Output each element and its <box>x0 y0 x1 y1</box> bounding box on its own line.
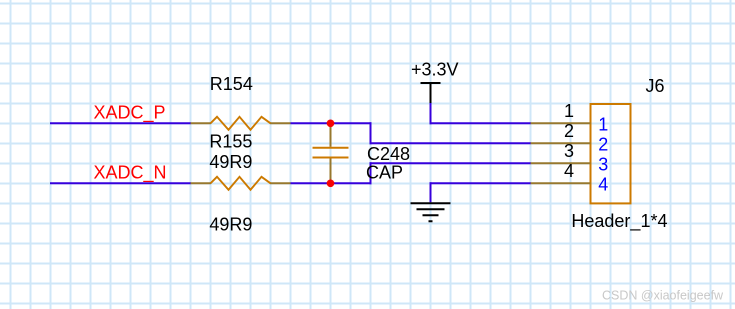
wire to header pin 1 <box>430 122 532 124</box>
svg-text:4: 4 <box>564 161 574 181</box>
wire XADC_P left segment <box>50 122 191 124</box>
wire down to ground <box>430 182 432 202</box>
junction at XADC_P / C248 <box>327 119 335 127</box>
wire XADC_N right segment (resistor R155 to corner) <box>291 182 372 184</box>
wire jog up to pin 3 row <box>370 162 372 184</box>
svg-text:C248: C248 <box>367 144 410 164</box>
wire from +3.3V down <box>430 103 432 124</box>
wire to header pin 2 <box>370 142 532 144</box>
svg-text:3: 3 <box>564 141 574 161</box>
wire jog down to pin 2 row <box>370 122 372 144</box>
svg-text:XADC_N: XADC_N <box>94 163 167 184</box>
svg-text:+3.3V: +3.3V <box>411 59 459 79</box>
wire to header pin 3 <box>370 162 532 164</box>
svg-text:1: 1 <box>598 115 608 135</box>
svg-text:CAP: CAP <box>366 163 403 183</box>
pin 1 of J6 <box>531 122 591 124</box>
ground <box>411 203 451 221</box>
pin 2 of J6 <box>531 142 591 144</box>
svg-text:3: 3 <box>598 155 608 175</box>
wire to header pin 4 <box>430 182 532 184</box>
svg-text:2: 2 <box>598 135 608 155</box>
svg-text:XADC_P: XADC_P <box>94 102 166 123</box>
pin 3 of J6 <box>531 162 591 164</box>
pin 4 of J6 <box>531 182 591 184</box>
power symbol +3.3V <box>421 83 441 103</box>
connector J6 body <box>591 104 631 203</box>
capacitor C248 <box>330 123 332 147</box>
wire XADC_P right segment (resistor R154 to corner) <box>291 122 372 124</box>
svg-text:49R9: 49R9 <box>209 152 252 172</box>
svg-text:R154: R154 <box>210 74 253 94</box>
svg-text:J6: J6 <box>646 76 665 96</box>
svg-text:R155: R155 <box>209 132 252 152</box>
resistor R154 <box>191 122 212 124</box>
svg-text:2: 2 <box>564 121 574 141</box>
wire XADC_N left segment <box>50 182 191 184</box>
svg-text:CSDN @xiaofeigeefw: CSDN @xiaofeigeefw <box>602 289 724 303</box>
svg-text:49R9: 49R9 <box>209 215 252 235</box>
svg-text:Header_1*4: Header_1*4 <box>571 211 667 232</box>
svg-text:1: 1 <box>564 101 574 121</box>
svg-text:4: 4 <box>598 175 608 195</box>
junction at XADC_N / C248 <box>327 179 335 187</box>
resistor R155 <box>191 182 212 184</box>
